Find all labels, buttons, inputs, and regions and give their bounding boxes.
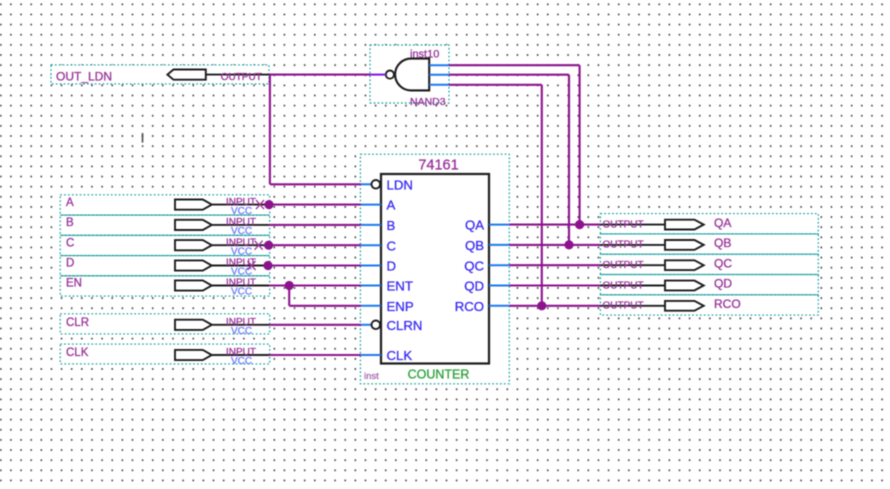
wire QD to output (509, 284, 600, 286)
wire RCO to output (509, 305, 600, 307)
svg-text:RCO: RCO (714, 297, 741, 311)
svg-text:A: A (66, 197, 74, 209)
svg-text:A: A (387, 198, 396, 213)
wire NAND3 input2 horizontal (449, 74, 569, 76)
output pin OUT_LDN (51, 65, 269, 84)
junction node RCO (537, 301, 546, 310)
input pin D (60, 256, 270, 278)
X mark node C (255, 241, 263, 250)
svg-text:OUTPUT: OUTPUT (603, 219, 644, 230)
svg-text:QB: QB (465, 238, 484, 253)
svg-text:QB: QB (714, 236, 731, 250)
svg-text:D: D (66, 258, 74, 270)
wire to LDN pin (270, 183, 361, 185)
pin QA stub (489, 224, 509, 226)
box boundary zigzag (600, 274, 818, 276)
pin ENT stub (361, 285, 381, 287)
pin QC stub (489, 264, 509, 266)
pin D stub (361, 265, 381, 267)
wire OUT_LDN to NAND3 output (269, 74, 370, 76)
wire EN branch vertical (288, 286, 290, 306)
74161 counter symbol inst (360, 154, 509, 384)
wire QA to output (509, 224, 600, 226)
wire QC to output (509, 264, 600, 266)
svg-text:OUTPUT: OUTPUT (603, 260, 644, 271)
junction node D (263, 261, 272, 270)
svg-text:EN: EN (66, 278, 82, 290)
svg-text:CLK: CLK (387, 348, 413, 363)
svg-text:CLR: CLR (66, 317, 89, 329)
wire NAND3 input3 horizontal (449, 84, 542, 86)
output pin RCO (600, 295, 818, 315)
input pin EN (60, 276, 270, 298)
wire A to counter (266, 204, 361, 206)
box boundary zigzag (600, 294, 818, 296)
wire D to counter (266, 264, 361, 266)
svg-text:B: B (66, 217, 74, 229)
input pin CLR (60, 314, 270, 337)
wire B to counter (269, 224, 361, 226)
svg-text:OUTPUT: OUTPUT (603, 240, 644, 251)
box boundary zigzag (60, 255, 270, 257)
input pin CLK (60, 344, 270, 367)
input pin C (60, 235, 270, 257)
svg-text:VCC: VCC (231, 356, 252, 367)
pin QB stub (489, 244, 509, 246)
X mark node D (248, 261, 256, 270)
junction node QB (564, 240, 573, 249)
svg-text:OUTPUT: OUTPUT (221, 72, 262, 83)
svg-text:inst: inst (364, 371, 379, 382)
svg-text:QD: QD (464, 279, 484, 294)
pin A stub (361, 204, 381, 206)
box boundary zigzag (60, 275, 270, 277)
svg-text:CLK: CLK (66, 347, 89, 359)
svg-text:QD: QD (714, 277, 732, 291)
svg-text:D: D (387, 259, 397, 274)
X mark node A (256, 200, 264, 209)
svg-text:VCC: VCC (231, 287, 252, 298)
junction node C (264, 241, 273, 250)
svg-text:ENP: ENP (387, 299, 414, 314)
box boundary zigzag (60, 214, 270, 216)
svg-text:C: C (387, 238, 397, 253)
wire NAND3 input3 vertical to RCO (541, 85, 543, 306)
wire NAND3 input1 vertical to QA (579, 65, 581, 224)
wire vertical to LDN (269, 75, 271, 185)
junction node EN (285, 281, 294, 290)
output pin QC (600, 254, 818, 274)
svg-text:C: C (66, 237, 74, 249)
wire EN to ENT (269, 284, 361, 286)
svg-text:RCO: RCO (455, 299, 484, 314)
input pin A (60, 195, 270, 217)
NAND3 gate inst10 (370, 45, 449, 108)
svg-text:QA: QA (714, 216, 731, 230)
wire NAND3 input1 horizontal (449, 64, 580, 66)
box boundary zigzag (600, 253, 818, 255)
wire NAND3 input2 vertical to QB (568, 75, 570, 245)
NAND3 output stub (370, 74, 386, 76)
pin CLK stub (361, 354, 381, 356)
svg-text:74161: 74161 (418, 158, 458, 174)
pin QD stub (489, 285, 509, 287)
wire QB to output (509, 244, 600, 246)
svg-text:LDN: LDN (387, 177, 413, 192)
svg-text:OUTPUT: OUTPUT (603, 280, 644, 291)
svg-text:OUT_LDN: OUT_LDN (56, 70, 112, 84)
pin CLRN stub with bubble (361, 324, 372, 326)
svg-text:COUNTER: COUNTER (408, 367, 470, 381)
output pin QB (600, 234, 818, 254)
junction node QA (575, 220, 584, 229)
pin ENP stub (361, 305, 381, 307)
svg-text:CLRN: CLRN (387, 318, 423, 333)
symbol white backgrounds (60, 195, 270, 296)
input pin B (60, 215, 270, 237)
box boundary zigzag (600, 233, 818, 235)
pin LDN stub with bubble (361, 183, 372, 185)
svg-text:QA: QA (465, 218, 484, 233)
svg-text:QC: QC (464, 258, 484, 273)
svg-text:QC: QC (714, 256, 732, 270)
pin B stub (361, 224, 381, 226)
pin C stub (361, 244, 381, 246)
box boundary zigzag (60, 234, 270, 236)
svg-text:ENT: ENT (387, 279, 413, 294)
junction node A (264, 200, 273, 209)
text cursor mark (142, 133, 144, 143)
pin RCO stub (489, 305, 509, 307)
wire C to counter (266, 244, 361, 246)
svg-text:NAND3: NAND3 (410, 96, 446, 108)
NAND3 input stubs (429, 64, 449, 66)
output pin QD (600, 275, 818, 295)
wire EN branch to ENP (289, 305, 361, 307)
wire CLK to CLK pin (269, 354, 361, 356)
svg-text:B: B (387, 218, 396, 233)
wire CLR to CLRN (269, 324, 361, 326)
svg-text:OUTPUT: OUTPUT (603, 301, 644, 312)
output pin QA (600, 214, 818, 234)
svg-text:VCC: VCC (231, 326, 252, 337)
